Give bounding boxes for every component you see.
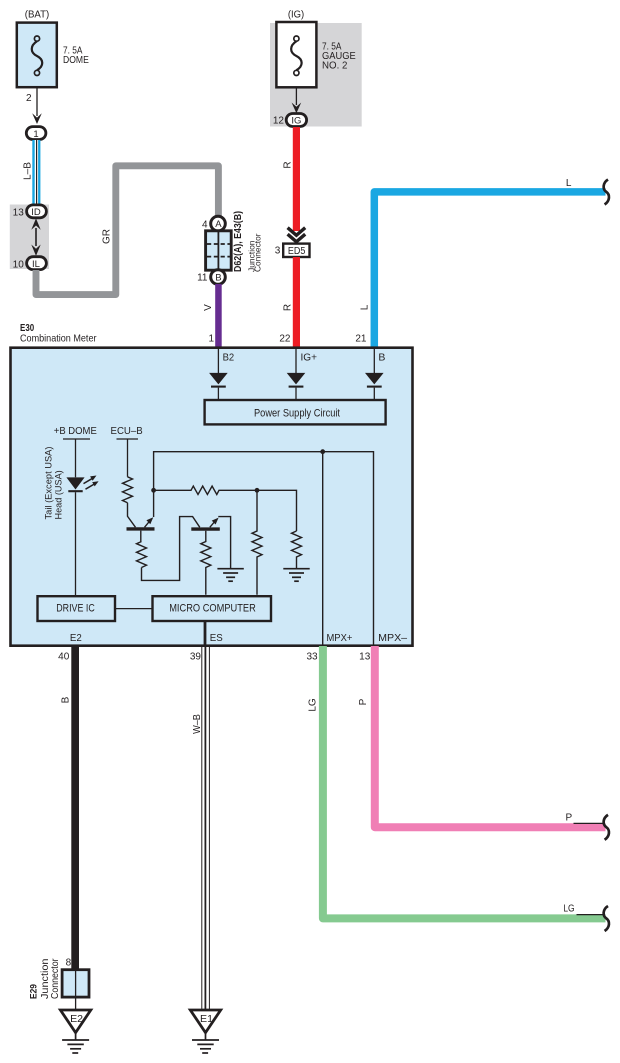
svg-text:Head (USA): Head (USA) xyxy=(53,470,64,519)
svg-text:R: R xyxy=(283,161,294,168)
diode D1 (B2) xyxy=(209,373,228,400)
wire GR gray xyxy=(36,166,218,295)
wire E29 to E2 ground xyxy=(75,997,77,1010)
wire DRIVE IC to MICRO COMPUTER xyxy=(115,608,153,610)
wire ES from MICRO COMPUTER xyxy=(204,621,207,647)
transistor Q1 xyxy=(127,517,155,529)
transistor Q2 xyxy=(191,518,220,530)
wire Q1 emitter to node xyxy=(153,490,155,517)
svg-text:P: P xyxy=(565,812,572,823)
wire R red upper xyxy=(293,127,300,231)
wire Q2 emitter to ground G1 xyxy=(219,517,231,569)
ground symbol E2 xyxy=(62,1033,89,1053)
svg-text:3: 3 xyxy=(275,245,281,256)
svg-text:NO. 2: NO. 2 xyxy=(322,60,348,72)
arrow down into connector 1 xyxy=(32,113,42,124)
junction connector D62(A),E43(B) box xyxy=(206,231,232,270)
svg-text:V: V xyxy=(203,304,214,311)
connector oval 1 xyxy=(26,127,46,140)
svg-text:+B DOME: +B DOME xyxy=(54,426,97,437)
svg-text:(BAT): (BAT) xyxy=(25,9,50,21)
resistor R6 xyxy=(252,490,262,594)
svg-text:13: 13 xyxy=(13,207,25,218)
resistor R2 horizontal with rail xyxy=(154,486,297,531)
ground G1 xyxy=(217,569,243,582)
ground triangle E2 xyxy=(60,1010,90,1033)
svg-text:4: 4 xyxy=(202,219,208,230)
svg-text:Power Supply Circuit: Power Supply Circuit xyxy=(254,408,340,420)
wire fuse IG to connector IG xyxy=(295,87,297,105)
page-break chevrons on R wire xyxy=(288,228,306,242)
fuse GAUGE NO.2 box xyxy=(276,22,316,87)
node dot Q1 emitter xyxy=(151,488,156,493)
svg-text:ED5: ED5 xyxy=(288,246,306,257)
wire R red lower xyxy=(293,257,300,347)
svg-text:B: B xyxy=(215,273,221,284)
ground triangle E1 xyxy=(190,1010,220,1033)
svg-text:ECU–B: ECU–B xyxy=(111,426,144,437)
wire LED to DRIVE IC xyxy=(75,492,77,596)
pin B2 lead xyxy=(217,348,219,373)
wire ECU-B to R1 xyxy=(127,439,129,477)
svg-text:L: L xyxy=(566,178,572,189)
svg-text:13: 13 xyxy=(359,652,371,663)
svg-text:40: 40 xyxy=(58,652,70,663)
fuse BAT symbol xyxy=(32,36,43,76)
svg-text:E2: E2 xyxy=(70,632,82,644)
top rail to MPX- xyxy=(154,452,374,646)
svg-text:B: B xyxy=(60,696,71,703)
svg-text:D62(A), E43(B): D62(A), E43(B) xyxy=(233,211,244,272)
diode D2 (IG+) xyxy=(287,373,306,400)
svg-text:1: 1 xyxy=(208,333,214,344)
LED emission arrows xyxy=(84,478,95,489)
svg-text:E29: E29 xyxy=(28,984,39,999)
gray box IG xyxy=(270,23,362,127)
wire R3 to Q2 collector xyxy=(142,517,200,581)
DRIVE IC box xyxy=(38,596,116,621)
resistor R7 xyxy=(292,531,302,569)
svg-text:A: A xyxy=(215,219,222,230)
node dot R6 top xyxy=(255,488,260,493)
svg-text:DOME: DOME xyxy=(63,54,89,66)
double arrow ID-IL xyxy=(31,218,40,256)
svg-text:DRIVE IC: DRIVE IC xyxy=(56,603,95,615)
wire P pink xyxy=(375,646,606,827)
svg-text:B: B xyxy=(378,351,385,363)
svg-text:ES: ES xyxy=(210,632,223,644)
connector oval IG xyxy=(286,114,306,127)
svg-text:P: P xyxy=(358,698,369,705)
svg-text:W–B: W–B xyxy=(192,714,203,734)
wire MPX+ down xyxy=(322,452,324,646)
svg-text:11: 11 xyxy=(197,273,208,284)
svg-text:1: 1 xyxy=(33,129,38,140)
svg-text:ID: ID xyxy=(31,207,41,218)
resistor R5 (Q2 base) xyxy=(201,531,211,595)
svg-text:LG: LG xyxy=(563,903,574,914)
svg-text:IG: IG xyxy=(291,116,301,127)
LED lamp (Tail/Head) xyxy=(66,477,84,491)
svg-text:LG: LG xyxy=(307,698,318,712)
wire B black xyxy=(71,646,79,970)
svg-text:8: 8 xyxy=(66,957,72,968)
svg-text:IL: IL xyxy=(32,259,40,270)
pin B lead xyxy=(373,348,375,373)
fuse IG symbol xyxy=(291,36,302,76)
fuse BAT DOME box xyxy=(17,23,57,88)
svg-text:21: 21 xyxy=(355,333,367,344)
junction connector E29 box xyxy=(62,970,89,997)
svg-text:10: 10 xyxy=(13,259,25,270)
connector oval ID xyxy=(27,205,47,218)
diode D3 (B) xyxy=(365,373,384,400)
svg-text:IG+: IG+ xyxy=(301,351,318,363)
svg-text:B2: B2 xyxy=(223,351,235,363)
wire L blue xyxy=(374,192,605,347)
svg-text:E1: E1 xyxy=(200,1014,213,1025)
svg-text:12: 12 xyxy=(273,116,285,127)
gray box ID/IL xyxy=(10,205,49,270)
break symbol L wire xyxy=(604,180,609,205)
wire L-B (blue w/ black stripe) xyxy=(32,140,40,205)
wire V violet xyxy=(215,284,222,347)
break symbol LG wire xyxy=(604,906,609,931)
svg-text:L: L xyxy=(359,304,370,310)
resistor R1 xyxy=(123,477,133,503)
node dot MPX+ rail xyxy=(320,449,325,454)
break symbol P wire xyxy=(604,815,609,840)
svg-text:Connector: Connector xyxy=(253,233,263,272)
MICRO COMPUTER box xyxy=(153,596,272,621)
ground symbol E1 xyxy=(192,1033,219,1053)
svg-text:39: 39 xyxy=(190,652,202,663)
ground G2 xyxy=(283,569,309,582)
svg-text:Connector: Connector xyxy=(50,958,61,999)
svg-text:L–B: L–B xyxy=(23,162,34,180)
wire fuse BAT to connector 1 xyxy=(36,87,38,116)
svg-text:MPX–: MPX– xyxy=(378,632,407,644)
svg-text:GR: GR xyxy=(102,229,113,244)
wire W-B (white w/ black stripe) xyxy=(201,647,210,1010)
svg-text:33: 33 xyxy=(306,652,318,663)
wire LG green xyxy=(323,646,606,918)
resistor R3 (Q1 base) xyxy=(137,531,147,568)
svg-text:(IG): (IG) xyxy=(288,9,304,21)
wire +B DOME to LED xyxy=(75,439,77,477)
arrow down into connector IG xyxy=(292,103,302,114)
connector oval IL xyxy=(27,257,47,270)
svg-text:Combination Meter: Combination Meter xyxy=(20,333,97,345)
wire R1 to Q1 collector xyxy=(128,503,136,528)
Power Supply Circuit box xyxy=(205,400,386,424)
svg-text:R: R xyxy=(283,304,294,311)
svg-text:MPX+: MPX+ xyxy=(327,632,353,644)
E30 Combination Meter box xyxy=(11,348,413,646)
svg-text:2: 2 xyxy=(26,93,32,104)
svg-text:22: 22 xyxy=(279,333,291,344)
svg-text:E2: E2 xyxy=(70,1014,83,1025)
pin IG+ lead xyxy=(295,348,297,373)
svg-text:MICRO COMPUTER: MICRO COMPUTER xyxy=(169,603,256,615)
